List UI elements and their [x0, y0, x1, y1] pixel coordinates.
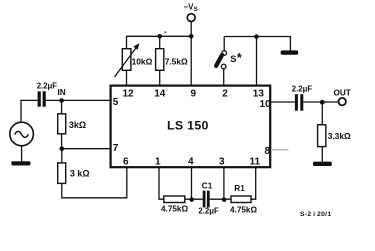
svg-text:OUT: OUT	[334, 88, 351, 97]
wire top rail left (pot top to -Vs node)	[127, 36, 192, 48]
wire mid node to pin 7	[62, 148, 111, 150]
wire pin 4 down	[191, 167, 193, 199]
svg-text:14: 14	[154, 89, 166, 100]
ground top right	[281, 50, 299, 54]
wire cap to pin 5	[46, 99, 111, 101]
wire R1 to pin 11	[251, 167, 256, 199]
svg-text:11: 11	[250, 156, 261, 167]
svg-text:7.5kΩ: 7.5kΩ	[165, 57, 188, 67]
capacitor input 2.2uF plates	[38, 91, 46, 106]
switch S* lever	[216, 55, 222, 66]
resistor 4.75k left body	[164, 196, 185, 203]
svg-text:2.2μF: 2.2μF	[292, 84, 313, 93]
wire C1 to R1	[210, 198, 231, 200]
svg-text:10: 10	[260, 99, 272, 110]
wire top rail right (switch to ground drop)	[224, 37, 290, 51]
junction dot pin 3 node	[222, 197, 227, 202]
wire source to ground	[21, 146, 23, 162]
capacitor C1 plates	[203, 191, 210, 208]
svg-text:6: 6	[123, 156, 129, 167]
OUT terminal circle	[339, 98, 346, 105]
resistor 3k upper body	[58, 114, 66, 134]
wire 7.5k top to rail	[159, 36, 161, 48]
resistor R1 body	[231, 196, 251, 203]
svg-text:3kΩ: 3kΩ	[69, 120, 86, 130]
svg-text:7: 7	[113, 143, 119, 154]
wire switch top to rail	[223, 37, 225, 51]
wire pin 10 to output cap	[270, 101, 295, 103]
svg-text:3.3kΩ: 3.3kΩ	[328, 131, 351, 141]
svg-text:IN: IN	[58, 88, 66, 97]
wire out node to 3.3k	[321, 102, 323, 125]
wire pot bottom to pin 12	[126, 70, 128, 85]
svg-text:S-2 i 20/1: S-2 i 20/1	[300, 211, 331, 218]
wire -Vs to pin 9	[190, 22, 192, 86]
wire 4.75k to C1	[185, 198, 203, 200]
switch S* bottom contact	[221, 64, 226, 69]
svg-text:4.75kΩ: 4.75kΩ	[161, 204, 188, 213]
svg-text:4.75kΩ: 4.75kΩ	[230, 205, 257, 214]
wire 7.5k bottom to pin 14	[159, 70, 161, 85]
wire switch bottom to pin 2	[223, 69, 225, 85]
svg-text:LS 150: LS 150	[167, 119, 209, 133]
potentiometer arrow	[115, 43, 140, 77]
switch S* top contact	[222, 51, 227, 56]
junction dot IN	[59, 98, 64, 103]
svg-text:9: 9	[191, 89, 197, 100]
svg-text:1: 1	[155, 156, 161, 167]
svg-text:3 kΩ: 3 kΩ	[70, 169, 90, 179]
resistor 7.5k body	[156, 49, 164, 71]
svg-text:C1: C1	[202, 182, 213, 191]
potentiometer R 10k body	[122, 49, 131, 71]
resistor 3.3k body	[318, 125, 326, 147]
wire rail to pin 13	[256, 37, 258, 86]
wire pin 8 stub	[272, 149, 289, 151]
svg-text:12: 12	[123, 89, 135, 100]
svg-text:S*: S*	[230, 51, 242, 65]
junction dot on rail at 7.5k	[157, 34, 162, 39]
capacitor output 2.2uF plates	[295, 94, 303, 111]
junction dot -Vs rail	[189, 34, 194, 39]
svg-text:2.2μF: 2.2μF	[37, 81, 58, 90]
wire 3k lower to pin 6 loop	[62, 167, 127, 197]
svg-text:4: 4	[188, 156, 194, 167]
junction dot mid node	[60, 146, 65, 151]
op-amp IC U1 LS 150 body	[111, 86, 271, 168]
ground below 3.3k	[313, 162, 332, 166]
wire 3k upper to mid node	[61, 134, 63, 149]
AC source G1	[10, 122, 34, 146]
svg-text:10kΩ: 10kΩ	[132, 57, 153, 67]
wire pin 1 down	[159, 167, 164, 199]
svg-text:R1: R1	[234, 184, 245, 193]
svg-text:13: 13	[253, 89, 265, 100]
svg-text:3: 3	[219, 156, 225, 167]
junction dot pin 13 rail	[254, 34, 259, 39]
wire mid node to 3k lower	[61, 149, 63, 163]
ground below source	[11, 161, 30, 165]
wire pin 3 down	[223, 167, 225, 199]
junction dot out node	[320, 100, 325, 105]
wire cap to OUT	[303, 101, 338, 103]
supply terminal -Vs circle	[187, 14, 195, 22]
svg-text:2: 2	[222, 89, 228, 100]
svg-text:5: 5	[113, 97, 119, 108]
resistor 3k lower body	[58, 163, 66, 184]
svg-text:8: 8	[265, 146, 271, 157]
label LS 150	[167, 119, 209, 133]
wire 3.3k to ground	[321, 147, 323, 162]
wire source to cap	[21, 100, 38, 122]
svg-text:2.2μF: 2.2μF	[198, 207, 219, 216]
wire IN dot down to R 3k upper	[61, 101, 63, 114]
ink speck	[164, 31, 166, 33]
junction dot pin 4 node	[189, 197, 194, 202]
